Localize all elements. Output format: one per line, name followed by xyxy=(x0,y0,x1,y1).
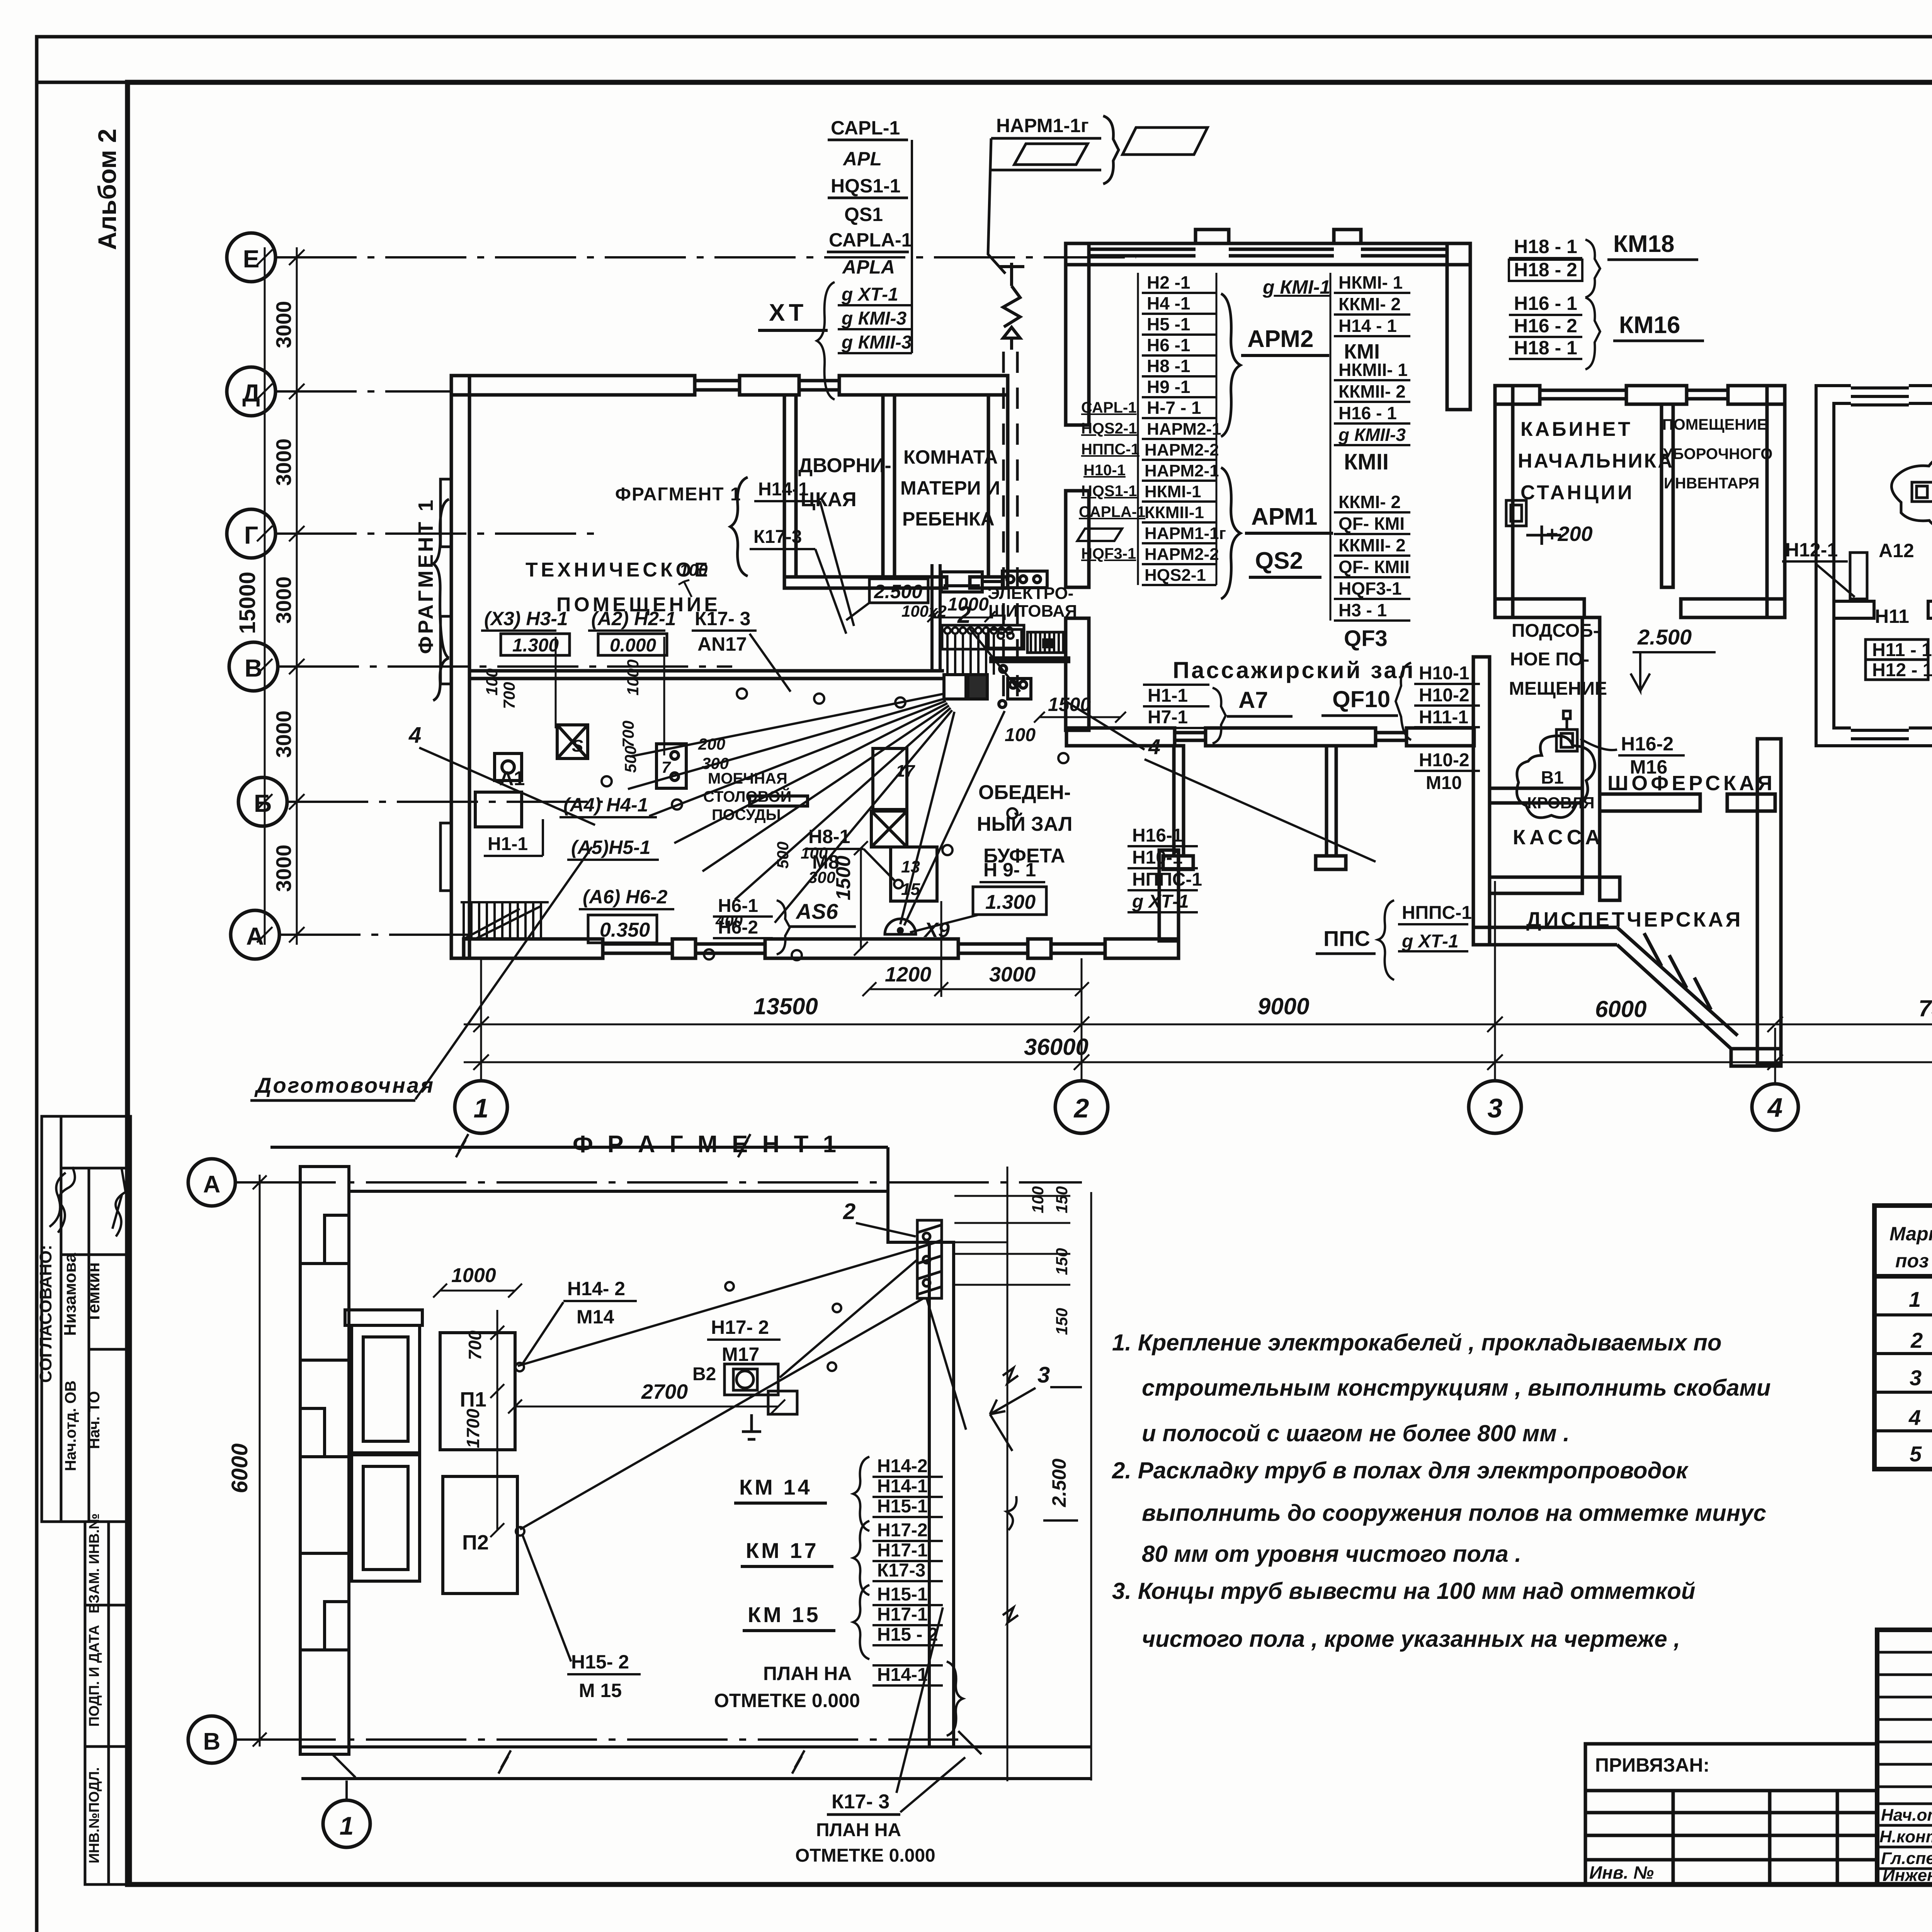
svg-text:поз .: поз . xyxy=(1895,1250,1932,1272)
svg-text:НОЕ ПО-: НОЕ ПО- xyxy=(1510,649,1589,670)
svg-text:ПРИВЯЗАН:: ПРИВЯЗАН: xyxy=(1595,1754,1709,1776)
right rooms block (Кабинет / Уборочный) xyxy=(1495,386,1785,617)
svg-text:НQF3-1: НQF3-1 xyxy=(1338,578,1402,599)
svg-text:Н5 -1: Н5 -1 xyxy=(1147,314,1190,334)
svg-text:1.300: 1.300 xyxy=(512,635,559,656)
svg-text:строительным конструкциям ,: строительным конструкциям , выполнить ск… xyxy=(1142,1375,1770,1401)
svg-text:Пассажирский зал: Пассажирский зал xyxy=(1173,657,1415,683)
svg-text:Н17-1: Н17-1 xyxy=(877,1604,928,1625)
svg-text:Н14 - 1: Н14 - 1 xyxy=(1338,316,1397,336)
svg-text:3: 3 xyxy=(1488,1093,1503,1123)
svg-text:В: В xyxy=(245,654,262,682)
svg-text:13500: 13500 xyxy=(753,993,818,1019)
svg-text:Н10-2: Н10-2 xyxy=(1419,750,1469,770)
svg-text:СТОЛОВОЙ: СТОЛОВОЙ xyxy=(703,787,791,805)
svg-text:НППС-1: НППС-1 xyxy=(1081,441,1139,458)
svg-text:QS2: QS2 xyxy=(1255,548,1303,574)
svg-text:Е: Е xyxy=(243,245,260,273)
svg-text:Н10-1: Н10-1 xyxy=(1132,847,1183,868)
svg-text:200: 200 xyxy=(698,735,725,753)
terminal combs xyxy=(942,625,1063,675)
svg-text:Н12 - 1: Н12 - 1 xyxy=(1872,660,1932,680)
svg-text:Н15 - 2: Н15 - 2 xyxy=(877,1624,938,1645)
svg-text:Н17-1: Н17-1 xyxy=(877,1540,928,1561)
svg-text:QF- КМII: QF- КМII xyxy=(1338,557,1410,577)
svg-text:5: 5 xyxy=(1910,1442,1922,1466)
svg-text:1000: 1000 xyxy=(624,660,642,696)
thin service lines right xyxy=(1007,1167,1009,1781)
signature squiggles xyxy=(49,1167,126,1236)
svg-text:ПЛАН НА: ПЛАН НА xyxy=(816,1820,901,1840)
svg-text:300: 300 xyxy=(808,868,835,886)
svg-text:МОЕЧНАЯ: МОЕЧНАЯ xyxy=(708,770,787,787)
svg-text:А12: А12 xyxy=(1879,540,1914,561)
svg-text:3000: 3000 xyxy=(272,301,296,348)
svg-text:Нач.отд.: Нач.отд. xyxy=(1881,1806,1932,1825)
svg-text:АРМ2: АРМ2 xyxy=(1247,326,1313,352)
dense comb bottom-left xyxy=(461,902,549,939)
svg-text:ФРАГМЕНТ 1: ФРАГМЕНТ 1 xyxy=(615,484,742,505)
left margin stamp: СОГЛАСОВАНО block xyxy=(42,1116,131,1522)
svg-text:Н15-1: Н15-1 xyxy=(877,1584,928,1605)
svg-text:6000: 6000 xyxy=(1595,996,1646,1022)
svg-text:3000: 3000 xyxy=(272,439,296,486)
svg-text:ЩИТОВАЯ: ЩИТОВАЯ xyxy=(988,602,1077,621)
kitchen / buffet fixtures xyxy=(475,725,937,901)
svg-text:П2: П2 xyxy=(462,1531,489,1554)
passenger hall walls xyxy=(1066,230,1474,941)
svg-text:Низамова: Низамова xyxy=(61,1253,80,1336)
svg-text:300: 300 xyxy=(702,754,729,772)
svg-text:Ф Р А Г М Е Н Т 1: Ф Р А Г М Е Н Т 1 xyxy=(573,1131,840,1158)
svg-text:ККМI- 2: ККМI- 2 xyxy=(1338,492,1401,512)
XT riser dashed pair xyxy=(1003,352,1017,699)
svg-text:4: 4 xyxy=(1767,1092,1783,1122)
КМ18 / КМ16 stacks top right xyxy=(1509,240,1600,369)
подсобное / касса / диспетчерская wing xyxy=(1473,617,1781,1066)
svg-text:13: 13 xyxy=(901,857,920,876)
svg-text:700: 700 xyxy=(500,682,518,709)
svg-text:Н18 - 1: Н18 - 1 xyxy=(1514,236,1577,257)
svg-text:g КМI-1: g КМI-1 xyxy=(1262,276,1330,298)
svg-text:ККМI- 2: ККМI- 2 xyxy=(1338,294,1401,314)
svg-text:К17- 3: К17- 3 xyxy=(832,1791,889,1813)
svg-text:Н-7 - 1: Н-7 - 1 xyxy=(1147,398,1201,418)
junction box with hatch + callout 2 xyxy=(917,1220,942,1298)
svg-text:САРLА-1: САРLА-1 xyxy=(829,229,912,251)
svg-text:(А4) Н4-1: (А4) Н4-1 xyxy=(563,794,648,816)
left block outer walls xyxy=(451,376,1179,958)
6000 vertical dim xyxy=(253,1175,267,1747)
bottom axis circles 1-5 xyxy=(455,1081,1932,1133)
svg-text:ПОСУДЫ: ПОСУДЫ xyxy=(712,806,781,823)
svg-text:В2: В2 xyxy=(692,1364,716,1384)
cloud B1 kassa xyxy=(1517,711,1595,818)
svg-text:НКМI- 1: НКМI- 1 xyxy=(1338,272,1403,293)
svg-text:1.300: 1.300 xyxy=(985,891,1036,913)
svg-text:500: 500 xyxy=(774,842,792,869)
svg-text:ПОМЕЩЕНИЕ: ПОМЕЩЕНИЕ xyxy=(1662,416,1767,433)
svg-text:2: 2 xyxy=(843,1199,855,1224)
svg-text:3000: 3000 xyxy=(272,711,296,758)
svg-text:(А6) Н6-2: (А6) Н6-2 xyxy=(583,886,668,908)
НППС-1 / ХТ-1 stack near ППС xyxy=(1378,900,1468,980)
svg-text:6000: 6000 xyxy=(227,1443,252,1493)
svg-text:НQF3-1: НQF3-1 xyxy=(1081,545,1136,562)
svg-text:g КМI-3: g КМI-3 xyxy=(841,308,906,329)
left vertical dimension lines xyxy=(257,247,304,945)
svg-text:Г: Г xyxy=(244,521,258,549)
svg-text:КАБИНЕТ: КАБИНЕТ xyxy=(1520,418,1633,440)
fragment walls xyxy=(270,1147,1091,1781)
svg-text:Н11-1: Н11-1 xyxy=(1419,707,1468,728)
svg-text:1: 1 xyxy=(340,1811,354,1840)
svg-text:Н14- 2: Н14- 2 xyxy=(567,1278,625,1299)
svg-text:0.350: 0.350 xyxy=(600,919,650,941)
svg-text:7500: 7500 xyxy=(1918,995,1932,1021)
porch columns below hall xyxy=(1174,746,1184,856)
svg-text:100: 100 xyxy=(801,844,828,862)
svg-text:КМ 15: КМ 15 xyxy=(748,1602,821,1627)
svg-text:САРL-1: САРL-1 xyxy=(831,117,900,139)
svg-text:ДИСПЕТЧЕРСКАЯ: ДИСПЕТЧЕРСКАЯ xyxy=(1526,908,1743,931)
svg-text:100: 100 xyxy=(1005,725,1036,745)
svg-text:НАРМ2-1: НАРМ2-1 xyxy=(1145,461,1219,480)
svg-text:Н3 - 1: Н3 - 1 xyxy=(1338,600,1387,620)
svg-text:ППС: ППС xyxy=(1323,926,1370,951)
svg-text:ФРАГМЕНТ 1: ФРАГМЕНТ 1 xyxy=(414,498,437,654)
window gaps bottom xyxy=(1851,726,1909,748)
H16-1 stack (left of axis3) xyxy=(1128,846,1198,912)
svg-text:2.500: 2.500 xyxy=(1048,1459,1070,1507)
svg-text:Н10-1: Н10-1 xyxy=(1083,462,1126,479)
svg-text:ОТМЕТКЕ 0.000: ОТМЕТКЕ 0.000 xyxy=(714,1690,860,1711)
Привязан box xyxy=(1585,1744,1877,1884)
svg-text:ИНВЕНТАРЯ: ИНВЕНТАРЯ xyxy=(1664,475,1759,492)
svg-text:КМ16: КМ16 xyxy=(1619,312,1680,338)
svg-text:Н18 - 2: Н18 - 2 xyxy=(1514,259,1577,281)
svg-text:Н9 -1: Н9 -1 xyxy=(1147,377,1190,397)
svg-text:2.500: 2.500 xyxy=(1637,625,1692,649)
bottom walls xyxy=(301,1745,1091,1748)
svg-text:Н10-2: Н10-2 xyxy=(1419,685,1469,706)
left wall window openings xyxy=(440,479,451,891)
svg-text:ПОДСОБ-: ПОДСОБ- xyxy=(1512,621,1599,641)
svg-text:9000: 9000 xyxy=(1258,993,1309,1019)
svg-text:1700: 1700 xyxy=(463,1408,483,1448)
svg-text:СОГЛАСОВАНО:: СОГЛАСОВАНО: xyxy=(36,1245,55,1383)
window gaps top xyxy=(1851,383,1909,406)
svg-text:100: 100 xyxy=(483,668,501,696)
scattered lamp circles xyxy=(602,689,1068,960)
svg-text:400: 400 xyxy=(715,912,743,930)
svg-text:ЦКАЯ: ЦКАЯ xyxy=(801,488,857,511)
svg-text:Доготовочная: Доготовочная xyxy=(254,1073,435,1097)
svg-text:НАРМ2-2: НАРМ2-2 xyxy=(1145,545,1219,564)
электрощитовая room xyxy=(932,564,1047,671)
fragment axis A xyxy=(188,1159,370,1847)
svg-text:М10: М10 xyxy=(1426,773,1462,793)
svg-text:Нач.отд. ОВ: Нач.отд. ОВ xyxy=(62,1381,79,1471)
svg-text:700: 700 xyxy=(619,721,637,748)
svg-text:7: 7 xyxy=(662,758,671,776)
svg-text:15000: 15000 xyxy=(235,571,260,634)
svg-text:чистого пола , кроме указ: чистого пола , кроме указанных на чертеж… xyxy=(1142,1626,1680,1652)
svg-text:НАРМ2-1: НАРМ2-1 xyxy=(1147,420,1221,439)
svg-text:выполнить до сооружения: выполнить до сооружения полов на отметке… xyxy=(1142,1500,1766,1526)
svg-text:Марка,: Марка, xyxy=(1889,1223,1932,1245)
svg-text:РЕБЕНКА: РЕБЕНКА xyxy=(902,508,995,530)
svg-text:1000: 1000 xyxy=(451,1264,496,1287)
svg-text:МЕЩЕНИЕ: МЕЩЕНИЕ xyxy=(1509,679,1607,699)
cable fan from panel xyxy=(628,694,1145,925)
svg-text:1500: 1500 xyxy=(832,855,855,900)
svg-text:1: 1 xyxy=(1909,1287,1921,1311)
svg-text:АS6: АS6 xyxy=(795,899,838,923)
axis lines (dash-dot) xyxy=(276,257,1136,935)
mid wall xyxy=(1834,601,1874,618)
svg-text:НАЧАЛЬНИКА: НАЧАЛЬНИКА xyxy=(1518,450,1674,472)
svg-text:(А5)Н5-1: (А5)Н5-1 xyxy=(571,837,651,858)
svg-text:КОМНАТА: КОМНАТА xyxy=(903,446,998,468)
svg-text:УБОРОЧНОГО: УБОРОЧНОГО xyxy=(1663,446,1772,463)
column C of hall stack xyxy=(1330,273,1410,621)
svg-text:2.500: 2.500 xyxy=(874,581,922,602)
svg-text:А1: А1 xyxy=(499,767,525,790)
svg-text:К17-3: К17-3 xyxy=(877,1560,925,1581)
svg-text:ИНВ.№ПОДЛ.: ИНВ.№ПОДЛ. xyxy=(86,1767,102,1863)
svg-text:М14: М14 xyxy=(577,1306,614,1328)
svg-text:НЫЙ ЗАЛ: НЫЙ ЗАЛ xyxy=(977,813,1073,835)
svg-text:4: 4 xyxy=(1148,735,1160,759)
svg-text:А7: А7 xyxy=(1238,687,1268,713)
svg-text:100: 100 xyxy=(679,561,708,580)
svg-text:ККМII-1: ККМII-1 xyxy=(1145,503,1204,522)
svg-text:2: 2 xyxy=(1910,1328,1923,1352)
svg-text:Н16 - 1: Н16 - 1 xyxy=(1338,403,1397,423)
svg-text:150: 150 xyxy=(1053,1248,1071,1275)
svg-text:QF- КМI: QF- КМI xyxy=(1338,514,1405,534)
svg-text:3: 3 xyxy=(1910,1366,1922,1390)
svg-text:НАРМ1-1г: НАРМ1-1г xyxy=(1145,524,1226,543)
svg-text:36000: 36000 xyxy=(1024,1034,1088,1060)
svg-text:Н1-1: Н1-1 xyxy=(1148,685,1188,706)
svg-text:ДВОРНИ-: ДВОРНИ- xyxy=(798,454,891,477)
svg-text:АN17: АN17 xyxy=(697,633,747,655)
svg-text:g ХТ-1: g ХТ-1 xyxy=(1132,891,1189,912)
svg-text:Н2 -1: Н2 -1 xyxy=(1147,272,1190,293)
svg-text:Н18 - 1: Н18 - 1 xyxy=(1514,337,1577,359)
small ticks on fragment bottom wall xyxy=(332,1731,981,1777)
dimension 1200 3000 row xyxy=(862,901,1089,997)
window sills in top wall gaps xyxy=(695,379,740,383)
svg-text:15: 15 xyxy=(901,880,920,899)
svg-text:ХТ: ХТ xyxy=(769,299,807,326)
svg-text:150: 150 xyxy=(1053,1308,1071,1335)
svg-text:КМ 14: КМ 14 xyxy=(739,1475,812,1499)
svg-text:Гл.спец.: Гл.спец. xyxy=(1881,1849,1932,1868)
svg-text:Н4 -1: Н4 -1 xyxy=(1147,293,1190,313)
svg-text:Х9: Х9 xyxy=(923,918,950,942)
svg-text:Н14-1: Н14-1 xyxy=(758,479,809,500)
svg-text:Н16-1: Н16-1 xyxy=(1132,825,1183,846)
svg-text:3: 3 xyxy=(1037,1362,1050,1388)
svg-text:100: 100 xyxy=(1029,1186,1047,1213)
panels П1 П2 and left cabinet xyxy=(345,1310,517,1594)
svg-text:(Х3) Н3-1: (Х3) Н3-1 xyxy=(484,608,568,629)
svg-text:Н12-1: Н12-1 xyxy=(1785,539,1838,561)
svg-text:Н8 -1: Н8 -1 xyxy=(1147,356,1190,376)
interior partitions left block xyxy=(469,395,1070,679)
svg-text:S: S xyxy=(572,736,583,755)
svg-text:700: 700 xyxy=(465,1330,485,1360)
column B of hall stack xyxy=(1138,273,1240,599)
svg-text:АРМ1: АРМ1 xyxy=(1251,503,1317,530)
bottom exterior wall piers xyxy=(464,939,603,958)
svg-text:НQS2-1: НQS2-1 xyxy=(1145,566,1206,585)
svg-text:Инв. №: Инв. № xyxy=(1589,1862,1654,1883)
svg-text:НППС-1: НППС-1 xyxy=(1132,869,1202,890)
svg-text:В: В xyxy=(203,1728,221,1755)
svg-text:3000: 3000 xyxy=(272,845,296,892)
title block grid xyxy=(1877,1630,1932,1884)
svg-text:Н14-1: Н14-1 xyxy=(877,1476,928,1497)
svg-text:Н17- 2: Н17- 2 xyxy=(711,1316,769,1338)
svg-text:САРL-1: САРL-1 xyxy=(1081,399,1136,416)
svg-text:К17-3: К17-3 xyxy=(753,527,802,547)
svg-text:НАРМ2-2: НАРМ2-2 xyxy=(1145,440,1219,459)
svg-text:Н14-1: Н14-1 xyxy=(877,1665,928,1685)
svg-text:g ХТ-1: g ХТ-1 xyxy=(841,284,898,305)
svg-text:Темкин: Темкин xyxy=(84,1262,103,1323)
svg-text:ОТМЕТКЕ 0.000: ОТМЕТКЕ 0.000 xyxy=(795,1845,935,1866)
svg-text:17: 17 xyxy=(896,762,915,781)
masonry pier column left xyxy=(300,1167,349,1754)
svg-text:QF10: QF10 xyxy=(1332,686,1390,712)
svg-text:Н15- 2: Н15- 2 xyxy=(571,1651,629,1673)
svg-text:1: 1 xyxy=(474,1093,489,1123)
components table xyxy=(1874,1206,1932,1469)
top wall xyxy=(270,1146,888,1149)
right building (M18) double walls xyxy=(1816,383,1932,748)
svg-text:Н17-2: Н17-2 xyxy=(877,1520,928,1541)
svg-text:Н15-1: Н15-1 xyxy=(877,1496,928,1517)
fragment fan xyxy=(518,1248,966,1529)
svg-text:2700: 2700 xyxy=(641,1380,688,1403)
svg-text:(А2) Н2-1: (А2) Н2-1 xyxy=(591,608,676,629)
svg-text:МАТЕРИ И: МАТЕРИ И xyxy=(900,477,1000,499)
svg-text:КМ 17: КМ 17 xyxy=(746,1538,819,1563)
platform mark +200 xyxy=(1506,500,1561,545)
svg-text:2: 2 xyxy=(1073,1093,1089,1123)
svg-text:А: А xyxy=(203,1171,221,1198)
roof cloud B3 (right building) xyxy=(1891,455,1932,533)
H6 stack and AS6 xyxy=(713,900,790,954)
svg-text:1000: 1000 xyxy=(947,594,989,615)
small 100/150 dims xyxy=(954,1196,1070,1285)
svg-text:М17: М17 xyxy=(722,1344,759,1365)
hall bottom wall with door piers xyxy=(1066,728,1175,746)
bottom axis stems xyxy=(481,750,1932,1084)
svg-text:QF3: QF3 xyxy=(1344,626,1388,651)
svg-text:1. Крепление электрокабелей: 1. Крепление электрокабелей , прокладыва… xyxy=(1112,1330,1722,1355)
svg-text:Н.контр.: Н.контр. xyxy=(1879,1827,1932,1846)
svg-text:П1: П1 xyxy=(460,1388,486,1411)
svg-text:Альбом 2: Альбом 2 xyxy=(93,129,121,250)
svg-text:ЭЛЕКТРО-: ЭЛЕКТРО- xyxy=(988,584,1073,603)
svg-text:0.000: 0.000 xyxy=(610,635,656,656)
svg-text:+200: +200 xyxy=(1546,522,1593,546)
svg-text:и полосой с шагом не бо: и полосой с шагом не более 800 мм . xyxy=(1142,1420,1570,1446)
svg-text:150: 150 xyxy=(1053,1186,1071,1213)
svg-text:НАРМ1-1г: НАРМ1-1г xyxy=(996,115,1089,136)
break marks xyxy=(456,1134,1018,1774)
svg-text:Инжен.: Инжен. xyxy=(1883,1866,1932,1885)
svg-text:ШОФЕРСКАЯ: ШОФЕРСКАЯ xyxy=(1607,772,1776,795)
svg-text:Н14-2: Н14-2 xyxy=(877,1456,928,1476)
svg-text:3. Концы труб вывести на: 3. Концы труб вывести на 100 мм над отме… xyxy=(1112,1578,1696,1604)
svg-text:Н11 - 1: Н11 - 1 xyxy=(1872,640,1932,660)
svg-text:Д: Д xyxy=(242,379,260,407)
svg-text:ПОДП. И ДАТА: ПОДП. И ДАТА xyxy=(86,1625,102,1727)
svg-text:ПЛАН НА: ПЛАН НА xyxy=(763,1663,852,1684)
svg-text:СТАНЦИИ: СТАНЦИИ xyxy=(1520,481,1634,504)
svg-text:g КМII-3: g КМII-3 xyxy=(1338,425,1406,445)
svg-text:2. Раскладку труб в полах: 2. Раскладку труб в полах для электропро… xyxy=(1112,1458,1689,1483)
wall on axis V (kitchen top) xyxy=(469,669,944,673)
svg-text:М 15: М 15 xyxy=(579,1680,622,1701)
svg-text:КАССА: КАССА xyxy=(1513,826,1604,849)
svg-text:Н16 - 2: Н16 - 2 xyxy=(1514,315,1577,337)
lightning arrester symbol xyxy=(999,263,1024,350)
svg-text:ВЗАМ. ИНВ.№: ВЗАМ. ИНВ.№ xyxy=(86,1513,102,1613)
svg-text:Н16-2: Н16-2 xyxy=(1621,733,1673,755)
bottom dimension lines xyxy=(464,1017,1932,1070)
svg-text:g ХТ-1: g ХТ-1 xyxy=(1401,931,1459,952)
axis circles E D G V B A (left) xyxy=(227,233,287,959)
top wall piers xyxy=(451,376,695,395)
svg-text:НQS2-1: НQS2-1 xyxy=(1081,420,1137,437)
svg-text:500: 500 xyxy=(621,746,639,773)
svg-text:3000: 3000 xyxy=(272,577,296,624)
svg-text:3000: 3000 xyxy=(989,963,1036,986)
svg-text:САРLА-1: САРLА-1 xyxy=(1079,503,1145,520)
svg-text:Н6 -1: Н6 -1 xyxy=(1147,335,1190,355)
svg-text:4: 4 xyxy=(1908,1405,1921,1430)
svg-text:НППС-1: НППС-1 xyxy=(1402,903,1472,923)
svg-text:4: 4 xyxy=(408,723,421,748)
svg-text:Нач. ТО: Нач. ТО xyxy=(86,1391,103,1449)
svg-text:НQS1-1: НQS1-1 xyxy=(831,175,901,197)
svg-text:КМ18: КМ18 xyxy=(1613,231,1674,257)
svg-text:Н1-1: Н1-1 xyxy=(488,834,528,854)
svg-text:А: А xyxy=(246,922,264,950)
svg-text:ККМII- 2: ККМII- 2 xyxy=(1338,381,1406,401)
svg-text:НКМII- 1: НКМII- 1 xyxy=(1338,360,1408,380)
svg-text:АРL: АРL xyxy=(842,148,882,170)
left exterior wall xyxy=(451,376,469,958)
svg-text:НКМI-1: НКМI-1 xyxy=(1145,482,1201,501)
svg-text:НQS1-1: НQS1-1 xyxy=(1081,483,1137,500)
svg-text:К17- 3: К17- 3 xyxy=(695,608,750,629)
svg-text:КРОВЛЯ: КРОВЛЯ xyxy=(1527,794,1595,812)
svg-text:g КМII-3: g КМII-3 xyxy=(841,332,912,353)
svg-text:КМII: КМII xyxy=(1344,449,1389,474)
svg-text:1200: 1200 xyxy=(885,963,931,986)
svg-text:Н7-1: Н7-1 xyxy=(1148,707,1188,728)
svg-text:Н 9- 1: Н 9- 1 xyxy=(983,859,1036,881)
svg-text:АРLА: АРLА xyxy=(842,256,895,278)
